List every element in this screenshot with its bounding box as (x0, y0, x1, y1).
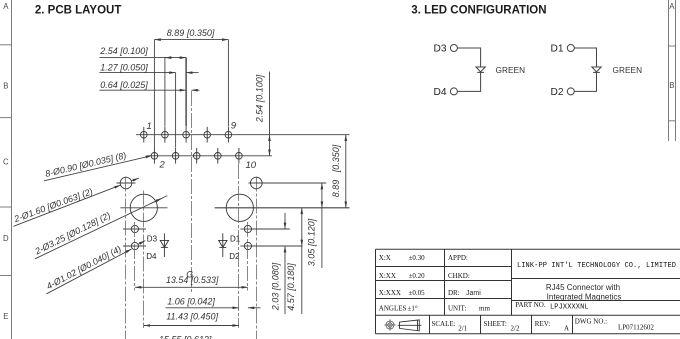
LED hole D4 (131, 242, 138, 249)
svg-text:LPJXXXXNL: LPJXXXXNL (550, 304, 589, 312)
pad 5 (183, 127, 190, 143)
leader 4-phi1.02 (47, 249, 132, 294)
svg-text:mm: mm (479, 305, 490, 313)
svg-text:E: E (3, 312, 8, 321)
svg-text:3.05 [0.120]: 3.05 [0.120] (307, 218, 317, 266)
svg-text:±1°: ±1° (408, 305, 418, 313)
diode symbol D1/D2 on layout (219, 233, 227, 257)
svg-text:UNIT:: UNIT: (448, 305, 466, 313)
svg-text:D3: D3 (147, 234, 158, 243)
svg-text:B: B (669, 81, 674, 90)
wire D4 bottom (457, 72, 480, 91)
svg-text:Jami: Jami (466, 290, 481, 297)
left zone tick 3 (0, 206, 12, 208)
svg-text:8.89 [0.350]: 8.89 [0.350] (167, 28, 215, 38)
pad 7 (204, 127, 211, 143)
table bottom row col line 4 (572, 315, 574, 334)
extension line LED D1 row for 2.03 (252, 228, 290, 230)
LED D1/D2 GREEN diode triangle (592, 67, 601, 72)
table row line r2 left (376, 280, 512, 282)
svg-text:2.54 [0.100]: 2.54 [0.100] (255, 74, 265, 123)
centerline phi1.60 left column (125, 177, 127, 339)
extension line pin5 column (185, 58, 187, 127)
table outer left (375, 249, 377, 334)
svg-text:C: C (3, 158, 9, 167)
left zone tick 1 (0, 44, 12, 46)
LED hole D3 (131, 225, 138, 232)
leader 2-phi3.25 (35, 196, 167, 259)
table row line under product (512, 300, 680, 302)
extension line pin4 column (175, 73, 177, 148)
LED hole D2 (244, 242, 251, 249)
svg-text:A: A (669, 2, 675, 11)
svg-text:LP07112602: LP07112602 (618, 324, 654, 332)
hole phi1.60 left centerline (117, 182, 136, 184)
svg-text:10: 10 (246, 160, 257, 171)
svg-text:REV:: REV: (535, 320, 550, 328)
svg-text:SCALE:: SCALE: (432, 320, 456, 328)
table row line r1 left (376, 266, 512, 268)
svg-text:2.54 [0.100]: 2.54 [0.100] (99, 46, 148, 56)
svg-text:D2: D2 (551, 87, 564, 98)
svg-text:0.64 [0.025]: 0.64 [0.025] (100, 80, 148, 90)
svg-text:LINK-PP INT'L TECHNOLOGY CO.,: LINK-PP INT'L TECHNOLOGY CO., LIMITED (517, 262, 676, 270)
svg-text:±0.05: ±0.05 (409, 289, 426, 297)
extension line pin2 column (153, 40, 155, 148)
svg-text:APPD:: APPD: (448, 254, 468, 262)
hole phi3.25 right centerline / extension line (215, 207, 350, 209)
svg-text:2/2: 2/2 (511, 325, 520, 333)
svg-text:15.55 [0.612]: 15.55 [0.612] (159, 334, 212, 339)
centerline LED hole right column / 13.54 extension (247, 222, 249, 291)
svg-text:X:X: X:X (379, 254, 391, 262)
extension line phi1.60 right for 3.05 (249, 182, 327, 184)
hole phi3.25 left centerline (120, 207, 167, 209)
centerline phi1.60 right column (256, 177, 258, 339)
terminal circle D4 (450, 88, 457, 95)
LED D3/D4 cathode bar (477, 71, 484, 73)
svg-text:1.06 [0.042]: 1.06 [0.042] (167, 297, 215, 307)
svg-text:2/1: 2/1 (458, 325, 467, 333)
left border line (11, 0, 13, 339)
svg-text:D: D (3, 234, 9, 243)
LED hole D4 crosshair (123, 245, 146, 247)
table outer bottom (376, 333, 680, 335)
svg-text:A: A (564, 325, 569, 333)
LED hole D3 crosshair (123, 228, 146, 230)
pad row 1 centerline (136, 134, 350, 136)
right zone tick 2 (669, 120, 676, 122)
projection symbol cone (398, 320, 422, 331)
table row line under company (512, 278, 680, 280)
leader 8-phi0.90 (44, 156, 152, 181)
table col line tolerance/appd (444, 249, 446, 315)
svg-text:PART NO.: PART NO. (515, 301, 546, 309)
pad 6 (193, 148, 200, 164)
svg-text:CHKD:: CHKD: (448, 272, 470, 280)
svg-text:4-Ø1.02 [Ø0.040] (4): 4-Ø1.02 [Ø0.040] (4) (45, 244, 123, 292)
pad 10 (236, 148, 243, 164)
svg-text:2.03 [0.080]: 2.03 [0.080] (271, 262, 281, 311)
centerline G vertical (191, 91, 193, 292)
svg-text:2-Ø3.25 [Ø0.128] (2): 2-Ø3.25 [Ø0.128] (2) (33, 210, 113, 257)
LED hole D1 (244, 225, 251, 232)
dimension 8.89 [0.350] top (154, 39, 228, 41)
svg-text:3. LED CONFIGURATION: 3. LED CONFIGURATION (411, 5, 546, 17)
svg-text:1: 1 (147, 121, 152, 132)
hole phi1.60 right (250, 177, 262, 189)
terminal circle D3 (450, 45, 457, 52)
LED hole D1 crosshair (240, 228, 255, 230)
terminal circle D2 (567, 88, 574, 95)
svg-text:X:XXX: X:XXX (379, 289, 401, 297)
wire D3 top (457, 48, 480, 67)
svg-text:D4: D4 (434, 87, 447, 98)
terminal circle D1 (567, 45, 574, 52)
extension line pin9 column (227, 40, 229, 127)
table row line r3 left (376, 298, 512, 300)
svg-text:B: B (3, 82, 8, 91)
pad 8 (215, 148, 222, 164)
svg-text:D3: D3 (434, 44, 447, 55)
table col line appd/company (511, 249, 513, 315)
pad 1 (141, 127, 148, 143)
right zone tick 1 (669, 45, 676, 47)
table bottom row col line 1 (429, 315, 431, 334)
leader 2-phi1.60 (14, 185, 121, 226)
centerline pin10 column / 11.43 extension (238, 164, 240, 328)
LED hole D2 crosshair (240, 245, 255, 247)
svg-text:1.27 [0.050]: 1.27 [0.050] (100, 62, 148, 72)
table row line r4 full (376, 314, 680, 316)
svg-text:±0.30: ±0.30 (409, 254, 426, 262)
extension line pin3 column (164, 58, 166, 127)
svg-text:SHEET:: SHEET: (484, 320, 507, 328)
centerline big hole left column / 11.43 extension (143, 191, 145, 329)
extension line LED D2 row for 2.03/4.57 (252, 245, 303, 247)
svg-text:4.57 [0.180]: 4.57 [0.180] (286, 263, 296, 311)
diode symbol D3/D4 on layout (160, 233, 168, 257)
projection symbol target circle (384, 319, 395, 330)
svg-text:D1: D1 (230, 234, 241, 243)
svg-text:8.89 [0.350]: 8.89 [0.350] (331, 144, 341, 197)
svg-text:X:XX: X:XX (379, 272, 396, 280)
svg-text:2. PCB LAYOUT: 2. PCB LAYOUT (35, 5, 121, 17)
svg-text:11.43 [0.450]: 11.43 [0.450] (166, 311, 218, 321)
hole phi3.25 right (226, 194, 253, 221)
hole phi1.60 left (120, 177, 132, 189)
svg-text:13.54 [0.533]: 13.54 [0.533] (166, 275, 219, 285)
LED D1/D2 cathode bar (593, 71, 600, 73)
svg-text:DWG NO.:: DWG NO.: (575, 318, 607, 326)
wire D1 top (574, 48, 596, 67)
svg-text:DR:: DR: (448, 289, 460, 297)
table bottom row col line 2 (480, 315, 482, 334)
svg-text:2: 2 (159, 160, 166, 171)
svg-text:±0.20: ±0.20 (409, 272, 426, 280)
left zone tick 2 (0, 117, 12, 119)
svg-text:GREEN: GREEN (613, 66, 643, 75)
centerline LED hole left column / 13.54 extension (134, 222, 136, 291)
table outer top (376, 248, 680, 250)
pad 2 (151, 148, 158, 164)
svg-text:9: 9 (231, 121, 237, 132)
table bottom row col line 3 (531, 315, 533, 334)
left zone tick 4 (0, 275, 12, 277)
pad row 2 centerline (147, 155, 273, 157)
svg-text:Integrated Magnetics: Integrated Magnetics (547, 292, 622, 301)
svg-text:A: A (3, 2, 9, 11)
svg-text:GREEN: GREEN (496, 66, 526, 75)
right border outer line (675, 0, 677, 141)
pad 3 (162, 127, 169, 143)
svg-text:2-Ø1.60 [Ø0.063] (2): 2-Ø1.60 [Ø0.063] (2) (12, 186, 94, 224)
LED D3/D4 GREEN diode triangle (476, 67, 485, 72)
wire D2 bottom (574, 72, 596, 91)
hole phi3.25 left (130, 194, 157, 221)
pad 4 (172, 148, 179, 164)
svg-text:D4: D4 (146, 252, 157, 261)
svg-text:D1: D1 (551, 44, 564, 55)
pad 9 (225, 127, 232, 143)
right border inner line (668, 0, 670, 141)
svg-text:ANGLES: ANGLES (379, 305, 407, 313)
svg-text:RJ45 Connector with: RJ45 Connector with (546, 283, 620, 292)
